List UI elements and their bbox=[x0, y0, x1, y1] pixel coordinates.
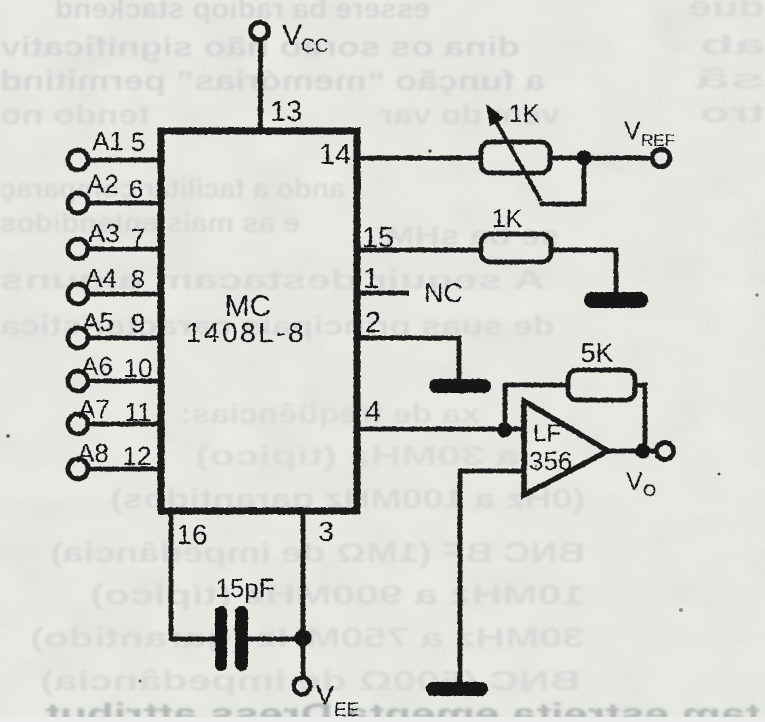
svg-text:A3: A3 bbox=[88, 218, 120, 248]
ground (pin 2) bbox=[429, 379, 491, 393]
svg-text:tam estreita ementa Dress attr: tam estreita ementa Dress attribut bbox=[45, 698, 760, 717]
svg-text:V: V bbox=[624, 117, 641, 145]
wire pin 16 to capacitor C1 bbox=[171, 514, 215, 639]
wire pin 1 NC stub bbox=[357, 291, 409, 296]
potentiometer P1 body bbox=[481, 142, 550, 173]
ground (R1) bbox=[584, 292, 648, 308]
svg-text:10MHz a 900MHz (típico): 10MHz a 900MHz (típico) bbox=[90, 579, 585, 610]
svg-text:EE: EE bbox=[334, 700, 359, 717]
svg-text:xa de freqüências:: xa de freqüências: bbox=[180, 398, 480, 429]
wire P1 wiper to VREF node bbox=[541, 158, 584, 204]
P1 wiper arrow bbox=[486, 104, 541, 201]
svg-text:ab: ab bbox=[700, 29, 765, 60]
IC U1 MC1408L-8 bbox=[161, 131, 357, 511]
wire pin 15 to resistor R1 bbox=[357, 248, 481, 253]
svg-text:12: 12 bbox=[123, 441, 152, 471]
svg-text:9: 9 bbox=[131, 308, 145, 338]
label VEE bbox=[316, 680, 359, 721]
svg-text:10: 10 bbox=[124, 353, 153, 383]
svg-text:NC: NC bbox=[424, 278, 463, 308]
svg-text:15pF: 15pF bbox=[215, 573, 274, 603]
wire op-amp output bbox=[608, 449, 655, 454]
svg-text:A1: A1 bbox=[92, 126, 124, 156]
svg-text:REF: REF bbox=[641, 131, 675, 150]
svg-text:ando a facilitar comparaç: ando a facilitar comparaç bbox=[0, 173, 345, 204]
svg-text:5: 5 bbox=[131, 127, 145, 157]
terminal VREF bbox=[652, 149, 670, 167]
terminal A2 bbox=[68, 193, 88, 213]
svg-text:6: 6 bbox=[129, 174, 143, 204]
svg-text:essere ba radiop stackend: essere ba radiop stackend bbox=[55, 0, 430, 24]
svg-text:2: 2 bbox=[365, 307, 381, 339]
svg-text:1408L-8: 1408L-8 bbox=[186, 317, 306, 348]
label VO bbox=[626, 468, 656, 500]
svg-text:A6: A6 bbox=[81, 351, 113, 381]
wire pin 4 to op-amp inverting input bbox=[357, 427, 524, 432]
junction dot output node bbox=[636, 444, 651, 459]
svg-text:1: 1 bbox=[363, 263, 379, 295]
wire pin 14 to potentiometer P1 bbox=[357, 156, 481, 161]
svg-text:LF: LF bbox=[533, 420, 561, 447]
wire R1 to ground bbox=[551, 250, 616, 293]
terminal VEE bbox=[294, 678, 311, 695]
wire A1 to pin 5 bbox=[88, 158, 161, 163]
wire P1 right to VREF terminal bbox=[550, 156, 651, 161]
op-amp U2 LF356 bbox=[524, 401, 608, 495]
terminal A1 bbox=[68, 150, 88, 170]
svg-text:13: 13 bbox=[270, 96, 302, 128]
terminal A7 bbox=[68, 414, 88, 434]
terminal A8 bbox=[68, 459, 88, 479]
svg-text:tro: tro bbox=[700, 97, 765, 128]
junction dot inverting input node bbox=[497, 423, 512, 438]
svg-text:A8: A8 bbox=[77, 438, 109, 468]
terminal A6 bbox=[68, 371, 88, 391]
wire A4 to pin 8 bbox=[88, 292, 161, 297]
svg-text:5K: 5K bbox=[580, 338, 613, 368]
svg-text:4: 4 bbox=[365, 396, 381, 428]
wire A2 to pin 6 bbox=[88, 201, 161, 206]
svg-text:tendo no: tendo no bbox=[0, 99, 150, 130]
wire non-inverting input to ground bbox=[460, 471, 524, 683]
terminal VCC bbox=[251, 22, 269, 40]
svg-text:a função “memórias” permitind: a função “memórias” permitind bbox=[0, 65, 545, 96]
svg-text:A seguir destacam alguns: A seguir destacam alguns bbox=[0, 264, 545, 295]
wire A7 to pin 11 bbox=[88, 422, 161, 427]
svg-text:due: due bbox=[688, 0, 765, 22]
svg-text:A2: A2 bbox=[87, 169, 119, 199]
terminal VO bbox=[657, 443, 674, 460]
wire feedback right bbox=[635, 385, 645, 451]
svg-text:V: V bbox=[282, 19, 302, 52]
label VREF bbox=[624, 117, 675, 150]
resistor R1 body bbox=[481, 234, 551, 262]
svg-text:A7: A7 bbox=[78, 394, 110, 424]
label VCC bbox=[282, 19, 328, 57]
capacitor C1 15pF bbox=[215, 606, 248, 671]
wire pin 2 to ground bbox=[357, 338, 459, 380]
wire pin 3 down bbox=[301, 514, 306, 639]
svg-text:1K: 1K bbox=[509, 100, 540, 128]
svg-text:V: V bbox=[316, 680, 334, 710]
terminal A5 bbox=[68, 328, 88, 348]
terminal A3 bbox=[68, 239, 88, 259]
junction dot pin 3 / C1 / VEE bbox=[295, 630, 312, 647]
resistor R2 body 5K bbox=[568, 370, 635, 400]
svg-text:V: V bbox=[626, 468, 643, 496]
terminal A4 bbox=[68, 284, 88, 304]
schematic ink bbox=[68, 19, 675, 721]
svg-text:O: O bbox=[643, 481, 656, 500]
wire feedback left bbox=[505, 385, 568, 429]
wire VCC to pin 13 bbox=[258, 40, 263, 131]
wire to VEE terminal bbox=[301, 639, 306, 678]
svg-text:1K: 1K bbox=[492, 205, 523, 233]
svg-text:CC: CC bbox=[301, 36, 328, 57]
svg-text:sã: sã bbox=[694, 63, 765, 94]
wire A3 to pin 7 bbox=[88, 247, 161, 252]
svg-text:3: 3 bbox=[318, 516, 334, 547]
svg-text:14: 14 bbox=[319, 139, 351, 171]
wire C1 to pin 3 node bbox=[248, 637, 303, 642]
svg-text:A4: A4 bbox=[85, 263, 117, 293]
junction dot VREF node bbox=[577, 151, 592, 166]
svg-text:16: 16 bbox=[176, 519, 207, 550]
ground (op-amp non-inverting) bbox=[426, 682, 488, 696]
wire A5 to pin 9 bbox=[88, 336, 161, 341]
wire A8 to pin 12 bbox=[88, 467, 161, 472]
svg-text:356: 356 bbox=[529, 446, 572, 476]
wire A6 to pin 10 bbox=[88, 379, 161, 384]
svg-text:e as mais entendidos: e as mais entendidos bbox=[0, 207, 300, 238]
svg-text:8: 8 bbox=[131, 264, 145, 294]
svg-text:A5: A5 bbox=[82, 307, 114, 337]
